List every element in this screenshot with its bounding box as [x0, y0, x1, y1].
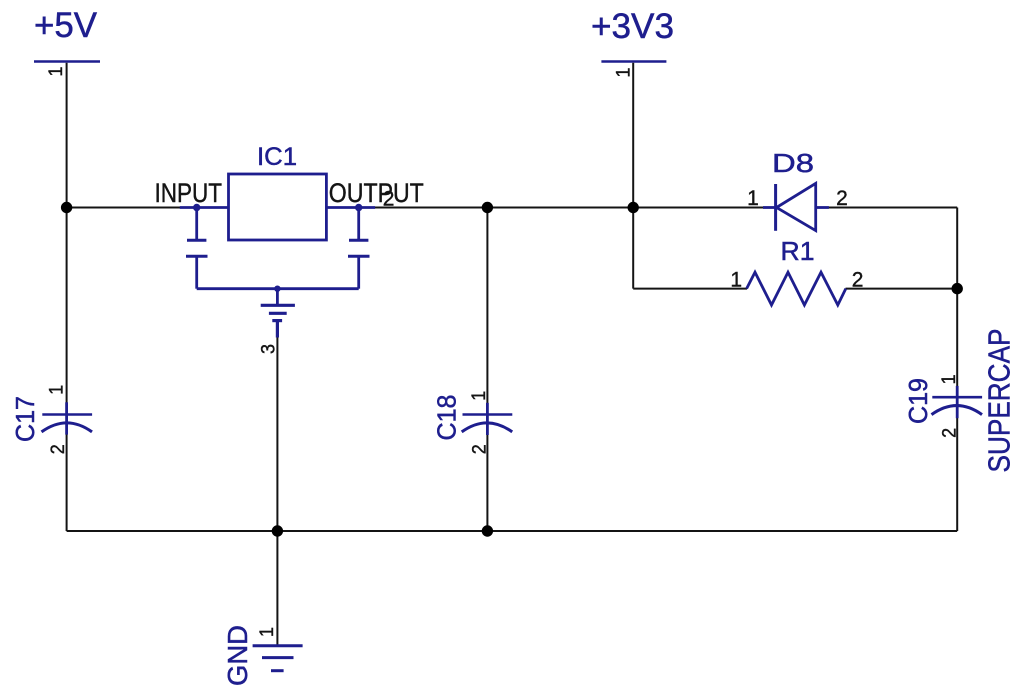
svg-text:2: 2 [836, 187, 848, 210]
IC1 input cap bottom plate [186, 255, 208, 258]
junction rail/+5V [61, 202, 72, 213]
wire +3V3 down through rail to R1 row [632, 63, 634, 289]
C17 pin stub vertical [65, 402, 68, 434]
IC1 output pin stub [326, 206, 375, 209]
wire rail middle segment [326, 207, 764, 209]
wire GND tap [276, 531, 278, 645]
supply +5V bar symbol [34, 60, 100, 63]
svg-text:2: 2 [470, 444, 491, 454]
svg-text:1: 1 [257, 627, 278, 637]
wire R1 row right [846, 288, 958, 290]
svg-text:1: 1 [614, 68, 635, 78]
IC1 internal gnd bar1 [261, 304, 295, 307]
C18 top plate [463, 413, 513, 416]
wire C18 branch lower [486, 435, 488, 532]
D8 pin1 stub [763, 206, 776, 209]
svg-text:2: 2 [940, 428, 961, 438]
IC1 input pin stub [180, 206, 229, 209]
ground bar1 [253, 644, 303, 647]
C19 pin stub vertical [956, 386, 959, 418]
svg-text:C18: C18 [431, 395, 461, 441]
svg-text:R1: R1 [781, 236, 815, 266]
svg-text:C17: C17 [10, 396, 40, 442]
svg-text:2: 2 [852, 269, 864, 292]
wire C18 branch upper [486, 208, 488, 404]
svg-text:D8: D8 [772, 148, 814, 178]
svg-text:1: 1 [46, 67, 67, 77]
diode D8 [763, 183, 829, 230]
regulator IC1 symbol [180, 174, 375, 338]
junction rail/C18 [482, 202, 493, 213]
C19 curved plate [932, 406, 983, 415]
junction rail/+3V3 [628, 202, 639, 213]
svg-text:3: 3 [259, 344, 280, 354]
svg-text:1: 1 [939, 374, 960, 384]
junction R1 row/right vertical [952, 283, 963, 294]
IC1 internal gnd bar3 [272, 319, 282, 322]
D8 pin2 stub [816, 206, 829, 209]
IC1 input pin junction dot [193, 204, 200, 211]
C18 curved plate [462, 423, 513, 432]
svg-text:+3V3: +3V3 [591, 7, 674, 46]
ground bar3 [271, 669, 284, 672]
capacitor C18 [462, 403, 513, 435]
IC1 output pin junction dot [355, 204, 362, 211]
svg-text:1: 1 [730, 269, 742, 292]
junction bottom rail/C18 [482, 525, 493, 536]
wire right vertical lower (C19 to bottom rail) [956, 418, 958, 532]
IC1 internal gnd junction dot [274, 286, 280, 292]
svg-text:2: 2 [383, 188, 395, 211]
D8 cathode bar [774, 184, 777, 231]
supply +3V3 bar symbol [601, 60, 666, 63]
IC1 internal gnd vertical [276, 289, 279, 304]
C19 top plate [932, 396, 982, 399]
svg-text:C19: C19 [903, 378, 933, 424]
IC1 pin3 stub [276, 321, 279, 338]
svg-text:1: 1 [469, 391, 490, 401]
wire R1 row left [633, 288, 747, 290]
IC1 input cap lower vertical [195, 256, 198, 289]
C18 pin stub vertical [486, 403, 489, 435]
wire C17 branch lower [66, 434, 68, 532]
wire +5V down to rail [66, 63, 68, 208]
svg-text:1: 1 [747, 187, 759, 210]
IC1 internal gnd bar2 [269, 312, 287, 315]
D8 triangle [777, 183, 816, 230]
C17 curved plate [42, 423, 93, 432]
C17 top plate [42, 413, 92, 416]
capacitor C17 [42, 402, 93, 434]
junction bottom rail/GND [272, 525, 283, 536]
ground bar2 [262, 656, 294, 659]
IC1 body rectangle [229, 174, 327, 240]
resistor R1 [747, 272, 846, 305]
IC1 output cap lower vertical [357, 256, 360, 289]
IC1 output cap bottom plate [348, 255, 370, 258]
IC1 input cap top plate [187, 239, 206, 242]
IC1 bottom link line [197, 287, 359, 290]
IC1 input cap branch vertical [195, 208, 198, 240]
wire right vertical upper (diode to C19) [956, 208, 958, 387]
ground symbol [253, 646, 303, 671]
capacitor C19 [932, 386, 983, 418]
wire IC1 pin3 down to rail [276, 337, 278, 531]
IC1 output cap branch vertical [357, 208, 360, 240]
svg-text:+5V: +5V [34, 6, 98, 45]
wire rail right segment [828, 207, 957, 209]
svg-text:GND: GND [222, 625, 253, 686]
svg-text:2: 2 [48, 444, 69, 454]
svg-text:INPUT: INPUT [155, 178, 223, 208]
wire bottom rail [67, 530, 958, 532]
svg-text:IC1: IC1 [257, 143, 297, 171]
svg-text:OUTPUT: OUTPUT [329, 178, 424, 208]
wire rail left segment [67, 207, 228, 209]
IC1 output cap top plate [349, 239, 368, 242]
svg-text:SUPERCAP: SUPERCAP [982, 329, 1017, 473]
svg-text:1: 1 [46, 385, 67, 395]
wire C17 branch upper [66, 208, 68, 404]
